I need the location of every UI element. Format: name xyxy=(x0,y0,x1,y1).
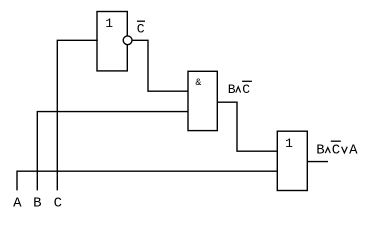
svg-text:C: C xyxy=(332,143,340,159)
svg-text:C: C xyxy=(137,22,145,37)
AND gate U2 box xyxy=(188,71,217,130)
svg-text:1: 1 xyxy=(105,16,113,31)
svg-text:B: B xyxy=(33,195,41,211)
OR gate U3 box xyxy=(277,131,307,190)
svg-text:C: C xyxy=(54,195,62,211)
wire OR output xyxy=(307,161,327,163)
svg-text:B: B xyxy=(228,82,236,97)
wire input C xyxy=(57,40,97,189)
wire NOT output to AND input 1 xyxy=(133,40,189,91)
NOT gate U1 box xyxy=(97,12,127,71)
svg-text:C: C xyxy=(242,82,250,97)
svg-text:1: 1 xyxy=(285,136,293,151)
wire input A xyxy=(17,171,277,190)
inverter bubble xyxy=(123,36,132,45)
wire input B xyxy=(37,112,188,190)
svg-text:A: A xyxy=(349,143,358,159)
wire AND output to OR input 1 xyxy=(217,102,277,151)
svg-text:&: & xyxy=(195,78,201,89)
svg-text:B: B xyxy=(316,143,324,159)
svg-text:A: A xyxy=(13,195,22,211)
